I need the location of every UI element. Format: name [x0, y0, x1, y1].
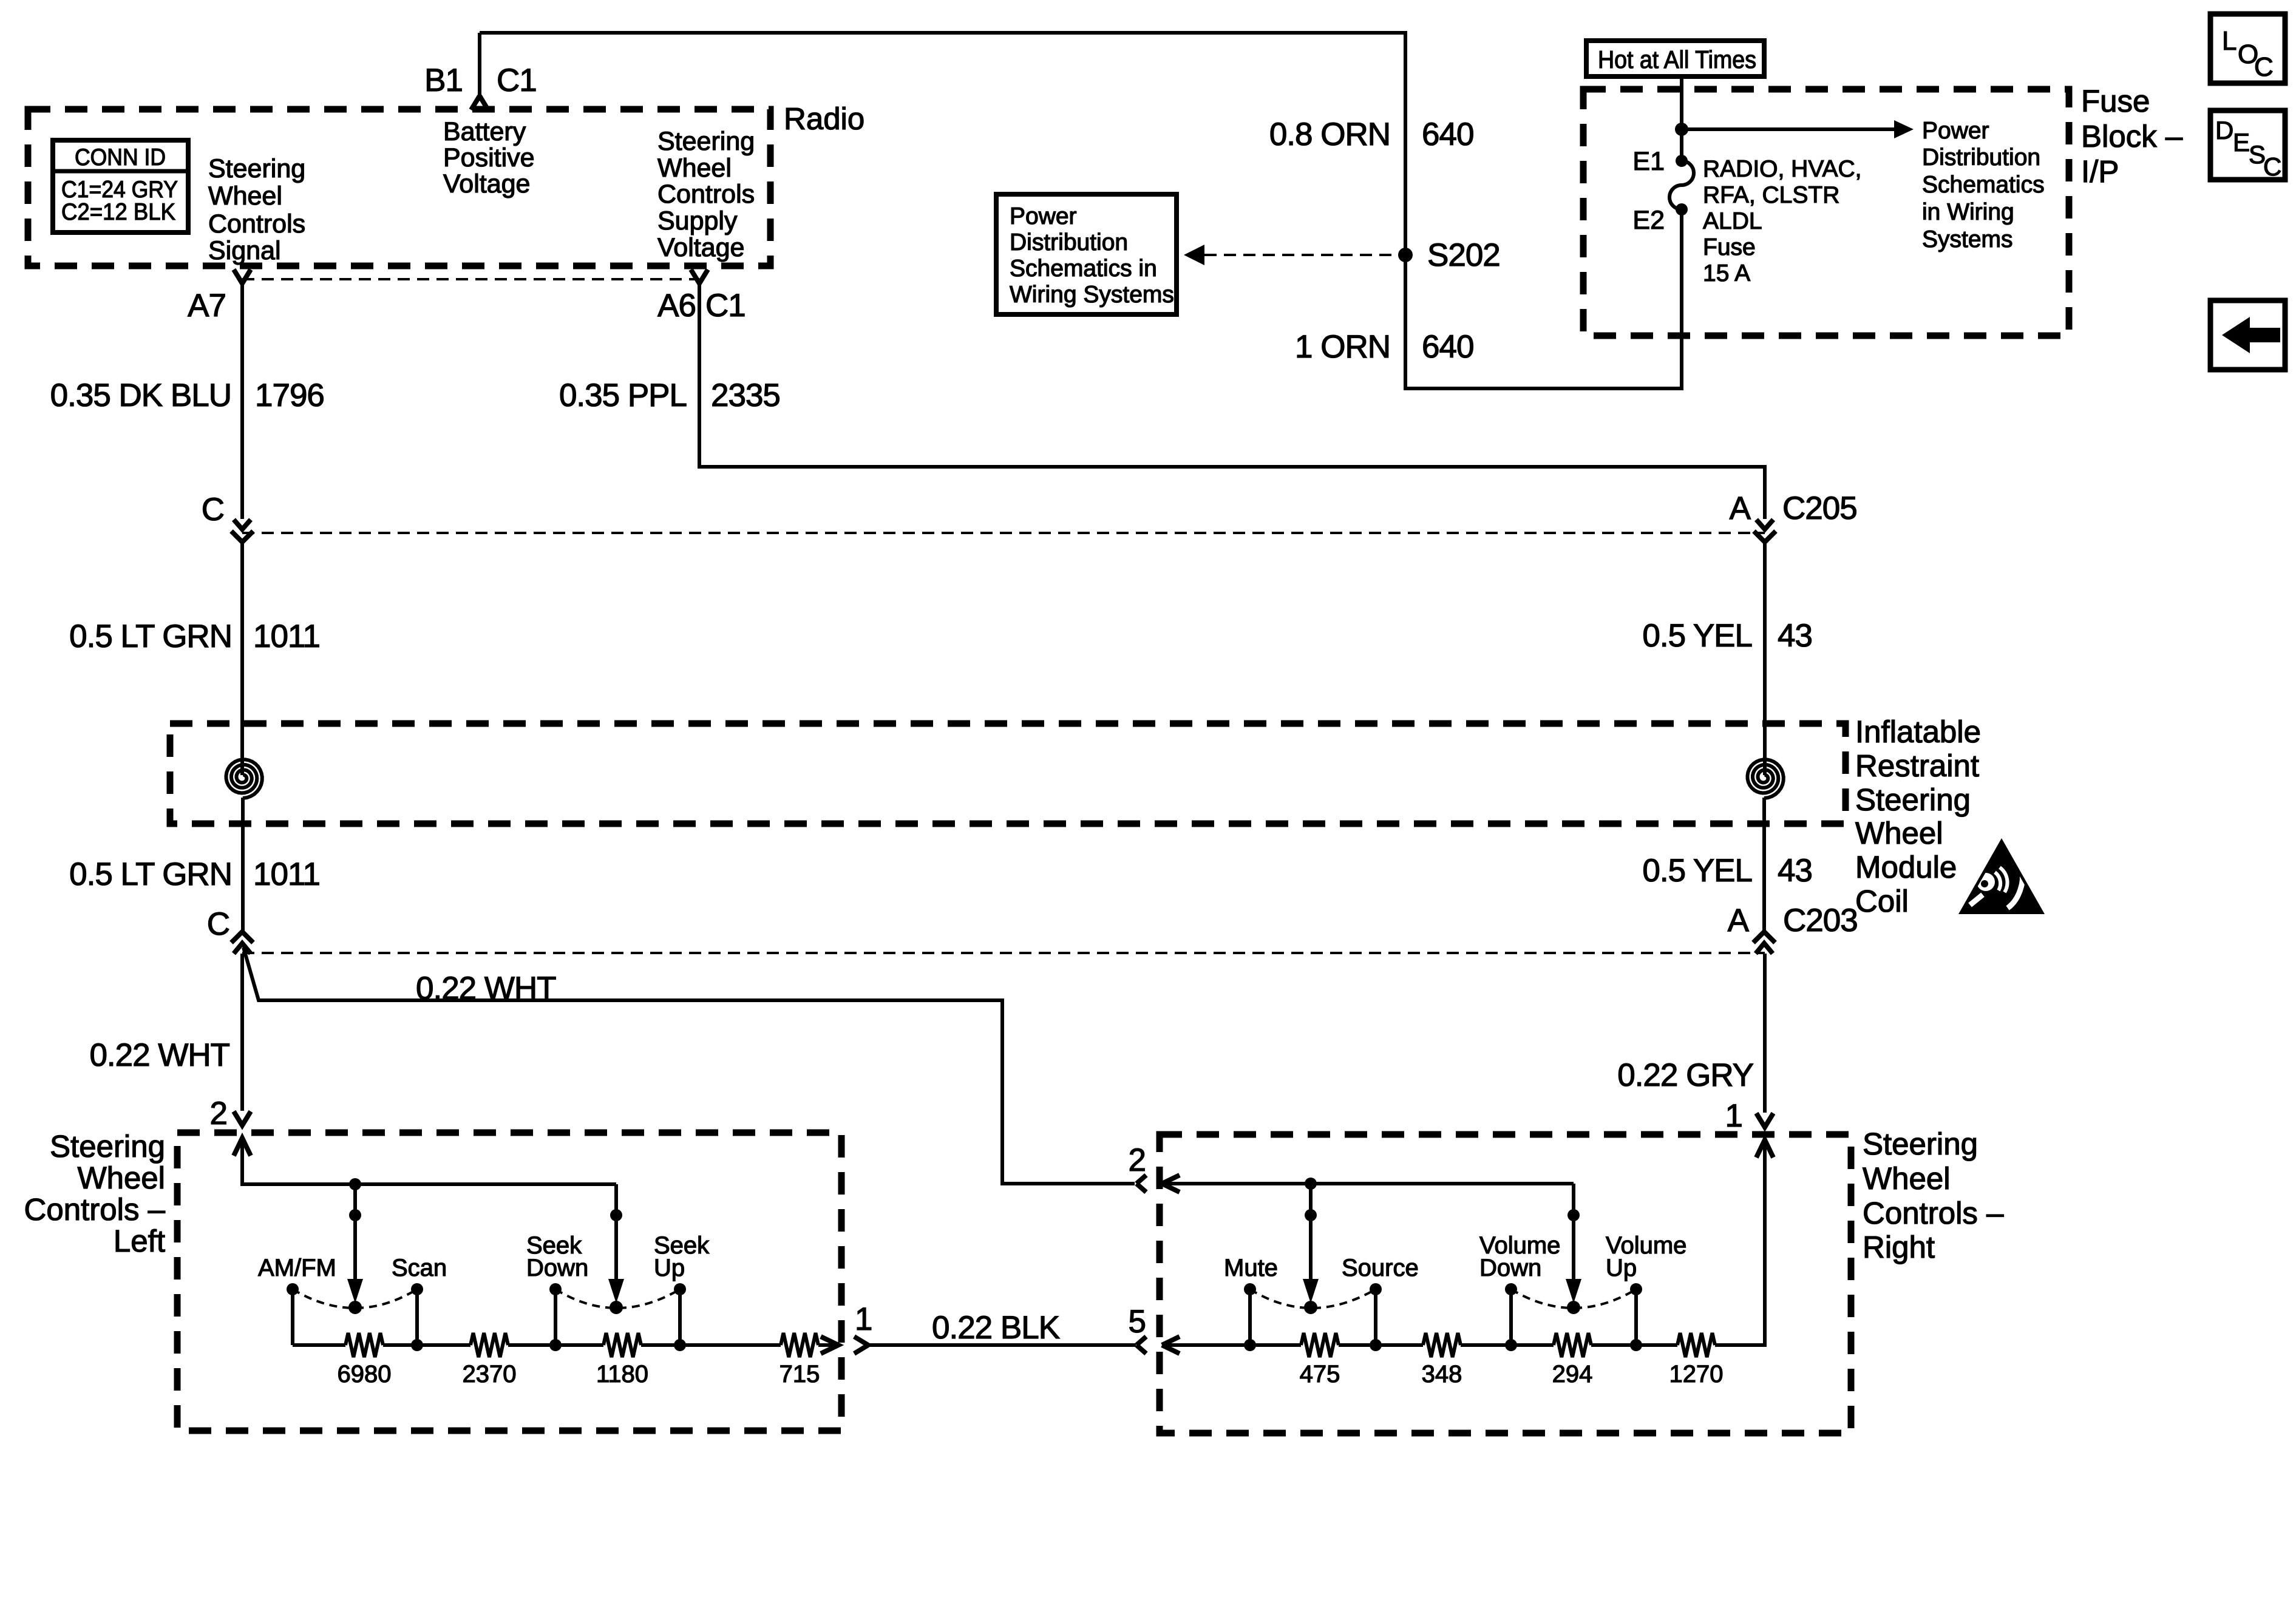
switch arc Volume: [1511, 1289, 1636, 1308]
LOC box: [2210, 14, 2285, 83]
svg-text:C: C: [2263, 152, 2281, 181]
svg-text:1180: 1180: [596, 1361, 648, 1388]
svg-text:475: 475: [1300, 1361, 1340, 1388]
junction node on fuse feed: [1675, 123, 1688, 136]
wiper feed SeekDown-SeekUp: [608, 1184, 624, 1303]
svg-text:Inflatable: Inflatable: [1855, 714, 1981, 749]
svg-text:43: 43: [1778, 853, 1812, 889]
svg-text:A: A: [1728, 903, 1750, 938]
connector chevron pin 2 left box: [234, 1111, 251, 1125]
svg-text:Wheel: Wheel: [208, 181, 282, 211]
svg-text:C203: C203: [1783, 903, 1858, 938]
svg-text:Controls –: Controls –: [1863, 1196, 2004, 1230]
label Steering Wheel Controls - Left: [24, 1129, 166, 1258]
label Inflatable Restraint Steering Wheel Module Coil: [1855, 714, 1981, 918]
svg-text:in Wiring: in Wiring: [1922, 199, 2014, 225]
connector chevron pin 2 right box: [1136, 1175, 1146, 1192]
contact Seek Up: [674, 1283, 686, 1351]
svg-text:A7: A7: [188, 288, 226, 324]
svg-text:15 A: 15 A: [1703, 260, 1750, 286]
svg-text:Schematics: Schematics: [1922, 172, 2045, 198]
wiper node Volume: [1567, 1301, 1580, 1314]
svg-text:Module: Module: [1855, 850, 1957, 884]
fuse block box (dashed): [1583, 89, 2069, 336]
svg-text:RFA, CLSTR: RFA, CLSTR: [1703, 182, 1839, 208]
svg-text:0.22 BLK: 0.22 BLK: [932, 1310, 1060, 1346]
svg-text:E: E: [2233, 128, 2250, 157]
svg-text:Power: Power: [1922, 118, 1989, 144]
svg-text:Mute: Mute: [1224, 1255, 1278, 1281]
svg-text:0.5 LT GRN: 0.5 LT GRN: [69, 619, 232, 654]
svg-text:0.35 DK BLU: 0.35 DK BLU: [50, 378, 231, 413]
wire 0.5 YEL 43 lower: [1762, 798, 1766, 932]
label Steering Wheel Controls Signal: [208, 154, 305, 265]
coil spiral left: [226, 759, 262, 798]
svg-text:Steering: Steering: [50, 1129, 165, 1164]
svg-text:Steering: Steering: [657, 127, 755, 156]
pin 1 internal arrow right box: [1756, 1140, 1773, 1158]
connector chevron pin 1 left box: [854, 1337, 868, 1354]
svg-text:0.5 YEL: 0.5 YEL: [1642, 853, 1752, 889]
svg-text:0.5 YEL: 0.5 YEL: [1642, 618, 1752, 654]
wire 0.5 LT GRN 1011 lower: [241, 798, 245, 932]
svg-text:C2=12 BLK: C2=12 BLK: [61, 199, 175, 225]
svg-text:Right: Right: [1863, 1230, 1935, 1264]
label Steering Wheel Controls Supply Voltage: [657, 127, 755, 262]
fuse element: [1669, 161, 1694, 209]
svg-text:Block –: Block –: [2081, 119, 2183, 154]
svg-text:Fuse: Fuse: [1703, 234, 1756, 260]
svg-text:Up: Up: [654, 1255, 685, 1281]
svg-text:1: 1: [1725, 1098, 1742, 1134]
svg-text:Controls –: Controls –: [24, 1192, 166, 1227]
svg-text:1011: 1011: [253, 619, 320, 654]
dashed arrow to power distribution box: [1184, 245, 1398, 265]
svg-text:B1: B1: [424, 63, 463, 98]
svg-text:Wheel: Wheel: [1855, 816, 1943, 850]
connector fork A6 at radio bottom: [691, 269, 708, 283]
svg-text:Coil: Coil: [1855, 884, 1909, 918]
svg-text:Steering: Steering: [1863, 1127, 1978, 1161]
svg-text:0.8 ORN: 0.8 ORN: [1269, 117, 1390, 152]
svg-text:Power: Power: [1010, 203, 1077, 229]
pin 5 internal arrow right box: [1162, 1337, 1180, 1354]
svg-text:Signal: Signal: [208, 236, 281, 265]
svg-text:Left: Left: [114, 1224, 165, 1258]
svg-text:ALDL: ALDL: [1703, 208, 1762, 234]
label Power Distribution Schematics in Wiring Systems (fuse box): [1922, 118, 2045, 253]
svg-text:Steering: Steering: [208, 154, 305, 183]
inflatable restraint coil box (dashed): [170, 724, 1846, 824]
svg-text:1796: 1796: [255, 378, 324, 413]
node E2: [1676, 203, 1688, 215]
connector C205 left symbol: [231, 520, 253, 542]
svg-text:Distribution: Distribution: [1010, 229, 1128, 256]
svg-text:Schematics in: Schematics in: [1010, 256, 1157, 282]
svg-text:Source: Source: [1342, 1255, 1419, 1281]
contact Volume Down: [1505, 1283, 1517, 1351]
contact Source: [1370, 1283, 1382, 1351]
svg-text:0.35 PPL: 0.35 PPL: [559, 378, 687, 413]
svg-text:L: L: [2222, 26, 2237, 56]
svg-text:1: 1: [855, 1301, 872, 1337]
wiper node Mute-Source: [1304, 1301, 1317, 1314]
node E1: [1676, 155, 1688, 167]
bottom resistor chain right box: [1162, 1140, 1765, 1357]
wiper feed Volume: [1566, 1184, 1581, 1303]
connector C205 dashed face: [242, 532, 1765, 534]
svg-text:Restraint: Restraint: [1855, 748, 1979, 783]
wire 0.22 WHT down to pin 2: [240, 954, 244, 1111]
svg-text:Wiring Systems: Wiring Systems: [1010, 282, 1174, 308]
pin 1 internal arrow left box: [821, 1337, 838, 1354]
label Steering Wheel Controls - Right: [1863, 1127, 2004, 1264]
svg-text:2370: 2370: [463, 1361, 517, 1388]
svg-text:1011: 1011: [253, 856, 320, 892]
connector fork A7 at radio bottom: [234, 269, 251, 283]
connector dashed face C1 radio: [242, 278, 699, 280]
contact Mute: [1244, 1283, 1256, 1351]
svg-text:C1: C1: [705, 288, 746, 324]
svg-text:1270: 1270: [1669, 1361, 1724, 1388]
svg-text:6980: 6980: [338, 1361, 392, 1388]
svg-text:Down: Down: [526, 1255, 588, 1281]
wire 0.5 LT GRN 1011 upper: [240, 542, 244, 775]
DESC box: [2210, 110, 2285, 181]
svg-text:0.22 GRY: 0.22 GRY: [1617, 1057, 1753, 1093]
svg-text:C: C: [2254, 52, 2274, 82]
svg-text:Wheel: Wheel: [77, 1161, 165, 1195]
bottom resistor chain left box: [293, 1333, 838, 1357]
label Battery Positive Voltage: [443, 117, 535, 198]
svg-text:Fuse: Fuse: [2081, 84, 2150, 118]
svg-text:Up: Up: [1606, 1255, 1637, 1281]
svg-text:C: C: [207, 906, 229, 942]
contact Volume Up: [1630, 1283, 1642, 1351]
svg-text:C: C: [202, 492, 224, 527]
switch arc Seek: [555, 1289, 680, 1308]
connector chevron pin 5 right box: [1136, 1337, 1146, 1354]
wiper feed Mute-Source: [1303, 1184, 1319, 1303]
pin 2 internal arrow left box: [234, 1138, 251, 1156]
svg-text:640: 640: [1422, 329, 1473, 365]
svg-text:C1: C1: [497, 63, 537, 98]
svg-text:Positive: Positive: [443, 143, 535, 172]
svg-text:2: 2: [1129, 1142, 1146, 1178]
svg-text:I/P: I/P: [2081, 154, 2119, 189]
svg-text:715: 715: [779, 1361, 820, 1388]
switch arc AM/FM-Scan: [293, 1289, 417, 1308]
svg-text:E1: E1: [1632, 147, 1665, 176]
contact Scan: [411, 1283, 423, 1351]
svg-text:Steering: Steering: [1855, 782, 1971, 817]
wire 0.5 YEL 43 upper: [1763, 542, 1767, 775]
svg-text:CONN ID: CONN ID: [75, 144, 166, 171]
coil spiral right: [1748, 759, 1784, 798]
button label Seek Down: [526, 1232, 588, 1281]
svg-text:2335: 2335: [711, 378, 780, 413]
svg-text:S202: S202: [1427, 237, 1500, 273]
svg-text:A6: A6: [657, 288, 696, 324]
svg-text:C205: C205: [1782, 490, 1857, 526]
svg-text:348: 348: [1422, 1361, 1462, 1388]
arrow to power distribution text: [1682, 120, 1914, 138]
CONN ID table: [53, 140, 188, 232]
label RADIO HVAC RFA CLSTR ALDL Fuse 15 A: [1703, 156, 1861, 286]
wire top 640 circuit: radio B1 up, across, down to fuse: [480, 33, 1682, 388]
back arrow box: [2210, 300, 2285, 370]
svg-text:0.22 WHT: 0.22 WHT: [416, 971, 556, 1006]
svg-text:294: 294: [1552, 1361, 1593, 1388]
power distribution schematics box: [996, 194, 1177, 314]
internal feed wire left box: [242, 1138, 616, 1184]
junction at Mute-Source branch: [1305, 1178, 1317, 1190]
switch arc Mute-Source: [1250, 1289, 1376, 1308]
svg-text:0.5 LT GRN: 0.5 LT GRN: [69, 856, 232, 892]
junction at AM/FM-Scan branch: [349, 1178, 361, 1190]
button label Volume Down: [1479, 1232, 1560, 1281]
connector fork B1/C1 at radio top: [471, 96, 488, 110]
wiper node Seek: [610, 1301, 623, 1314]
wiper node AM/FM-Scan: [348, 1301, 362, 1314]
svg-text:AM/FM: AM/FM: [258, 1255, 336, 1281]
hot at all times box: [1586, 41, 1764, 76]
node S202: [1398, 248, 1413, 262]
connector C205 right symbol: [1754, 520, 1776, 542]
contact AM/FM: [287, 1283, 299, 1345]
wire 0.35 DK BLU 1796: [240, 283, 244, 519]
svg-text:5: 5: [1129, 1304, 1146, 1340]
internal feed wire right box: [1162, 1182, 1574, 1185]
svg-text:Wheel: Wheel: [657, 154, 732, 183]
svg-text:Supply: Supply: [657, 206, 738, 236]
wire 0.22 WHT branch to right box pin 2: [243, 947, 1135, 1184]
svg-text:Battery: Battery: [443, 117, 526, 146]
connector C203 right symbol: [1753, 932, 1775, 954]
svg-text:Voltage: Voltage: [443, 169, 530, 198]
svg-text:640: 640: [1422, 117, 1473, 152]
button label Seek Up: [654, 1232, 710, 1281]
svg-text:Controls: Controls: [657, 180, 755, 209]
radio box (dashed): [28, 109, 770, 266]
svg-text:Hot at All Times: Hot at All Times: [1598, 46, 1756, 73]
svg-text:Radio: Radio: [784, 101, 864, 136]
airbag warning triangle: [1958, 838, 2045, 914]
svg-text:Systems: Systems: [1922, 226, 2013, 253]
label Fuse Block - I/P: [2081, 84, 2183, 189]
svg-text:Scan: Scan: [392, 1255, 447, 1281]
svg-text:0.22 WHT: 0.22 WHT: [89, 1037, 229, 1073]
wire 0.22 BLK: [868, 1343, 1136, 1347]
wire 0.22 GRY down to pin 1: [1763, 954, 1767, 1113]
wire 0.35 PPL 2335: [699, 283, 1765, 519]
connector chevron pin 1 right box: [1756, 1113, 1773, 1127]
svg-text:Wheel: Wheel: [1863, 1161, 1951, 1196]
svg-text:Distribution: Distribution: [1922, 144, 2040, 171]
svg-text:1 ORN: 1 ORN: [1295, 329, 1390, 365]
svg-text:E2: E2: [1632, 206, 1665, 235]
steering wheel controls right box (dashed): [1160, 1134, 1851, 1433]
svg-text:Controls: Controls: [208, 209, 305, 239]
connector C203 dashed face: [242, 952, 1765, 954]
connector C203 left symbol: [231, 932, 253, 954]
svg-text:2: 2: [210, 1096, 227, 1131]
button label Volume Up: [1606, 1232, 1686, 1281]
svg-text:Voltage: Voltage: [657, 233, 744, 262]
wiper feed AM/FM-Scan: [347, 1184, 363, 1303]
svg-text:D: D: [2215, 116, 2233, 144]
svg-text:Down: Down: [1479, 1255, 1541, 1281]
pin 2 internal arrow right box: [1162, 1175, 1180, 1192]
svg-text:RADIO, HVAC,: RADIO, HVAC,: [1703, 156, 1861, 182]
steering wheel controls left box (dashed): [177, 1133, 841, 1431]
contact Seek Down: [549, 1283, 562, 1351]
svg-text:43: 43: [1778, 618, 1812, 654]
svg-text:A: A: [1730, 490, 1751, 526]
wire hot feed into fuse: [1680, 76, 1683, 161]
